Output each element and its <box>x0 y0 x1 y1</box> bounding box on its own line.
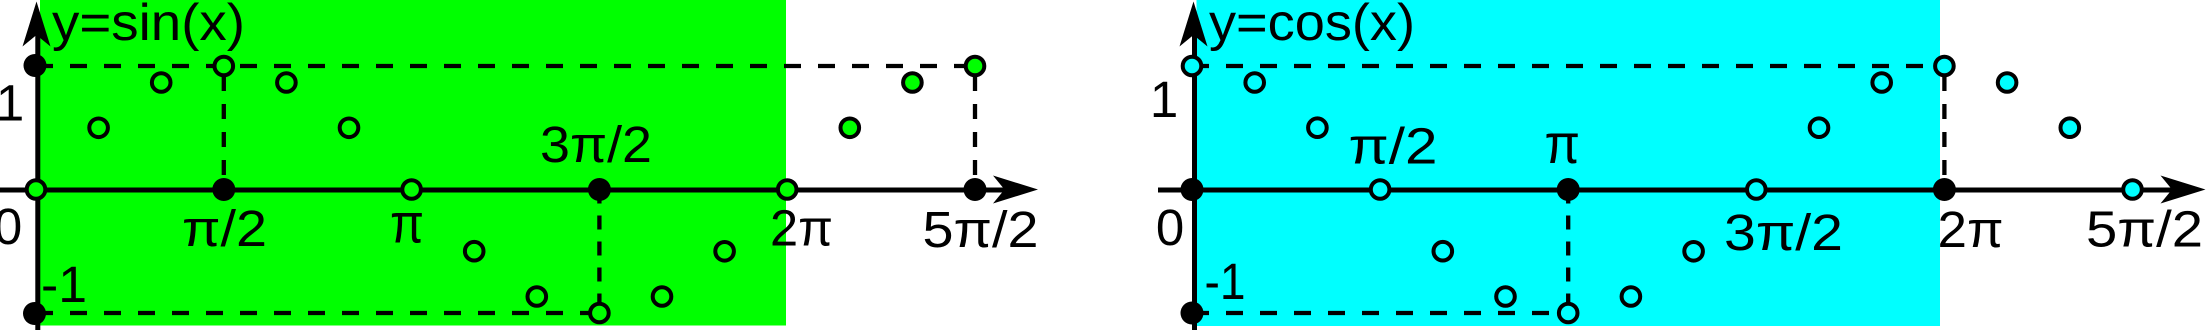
svg-text:1: 1 <box>0 75 24 132</box>
tick dot y=-1 (left) <box>23 302 46 325</box>
dashed vertical x=2pi (right) <box>1942 76 1946 190</box>
green domain region [0,2pi] <box>40 0 786 326</box>
svg-text:π/2: π/2 <box>1349 118 1438 175</box>
svg-text:-1: -1 <box>41 256 87 313</box>
dashed line y=-1 (left) <box>36 311 599 315</box>
svg-text:π/2: π/2 <box>182 200 267 257</box>
svg-text:0: 0 <box>0 198 22 255</box>
svg-text:π: π <box>1545 112 1581 175</box>
svg-text:2π: 2π <box>1938 201 2004 258</box>
svg-text:5π/2: 5π/2 <box>2086 201 2203 258</box>
x-axis arrowhead (right) <box>2161 176 2206 204</box>
tick dot x=2pi (right) <box>1933 178 1956 201</box>
svg-text:5π/2: 5π/2 <box>923 201 1039 258</box>
svg-text:2π: 2π <box>770 200 833 257</box>
tick dot x=pi (right) <box>1557 178 1580 201</box>
y-axis arrowhead (left) <box>23 2 51 47</box>
y-axis (right) <box>1192 25 1197 330</box>
dashed vertical x=pi/2 (left) <box>222 76 226 190</box>
tick dot y=-1 (right) <box>1181 302 1204 325</box>
svg-text:-1: -1 <box>1205 253 1246 310</box>
dashed line y=1 (left) <box>36 64 975 68</box>
y-axis arrowhead (right) <box>1180 2 1208 47</box>
y-axis (left) <box>35 25 40 330</box>
dashed line y=-1 (right) <box>1192 311 1568 315</box>
svg-text:3π/2: 3π/2 <box>540 116 652 173</box>
sin sample points: green circles <box>27 57 985 323</box>
x-axis arrowhead (left) <box>993 176 1038 204</box>
svg-text:π: π <box>390 192 424 255</box>
tick dot x=pi/2 (left) <box>212 178 235 201</box>
x-axis (right) <box>1158 188 2178 193</box>
cyan domain region [0,2pi] <box>1197 0 1941 326</box>
x-axis (left) <box>0 188 1010 193</box>
right plot: y=cos(x) <box>1150 0 2206 330</box>
dashed vertical x=pi (right) <box>1566 190 1570 314</box>
tick dot y=1 (left) <box>24 54 47 77</box>
dashed vertical x=5pi/2 (left) <box>973 76 977 190</box>
svg-text:0: 0 <box>1156 199 1184 256</box>
svg-text:1: 1 <box>1150 71 1178 128</box>
svg-text:y=cos(x): y=cos(x) <box>1209 0 1415 52</box>
cos sample points: cyan circles <box>1183 57 2142 323</box>
tick dot x=3pi/2 (left) <box>588 178 611 201</box>
left plot: y=sin(x) <box>0 0 1039 330</box>
tick dot origin (right) <box>1181 178 1204 201</box>
dashed line y=1 (right) <box>1192 64 1944 68</box>
svg-text:y=sin(x): y=sin(x) <box>52 0 245 52</box>
tick dot x=5pi/2 (left) <box>964 178 987 201</box>
dashed vertical x=3pi/2 (left) <box>597 190 601 314</box>
svg-text:3π/2: 3π/2 <box>1724 204 1843 261</box>
